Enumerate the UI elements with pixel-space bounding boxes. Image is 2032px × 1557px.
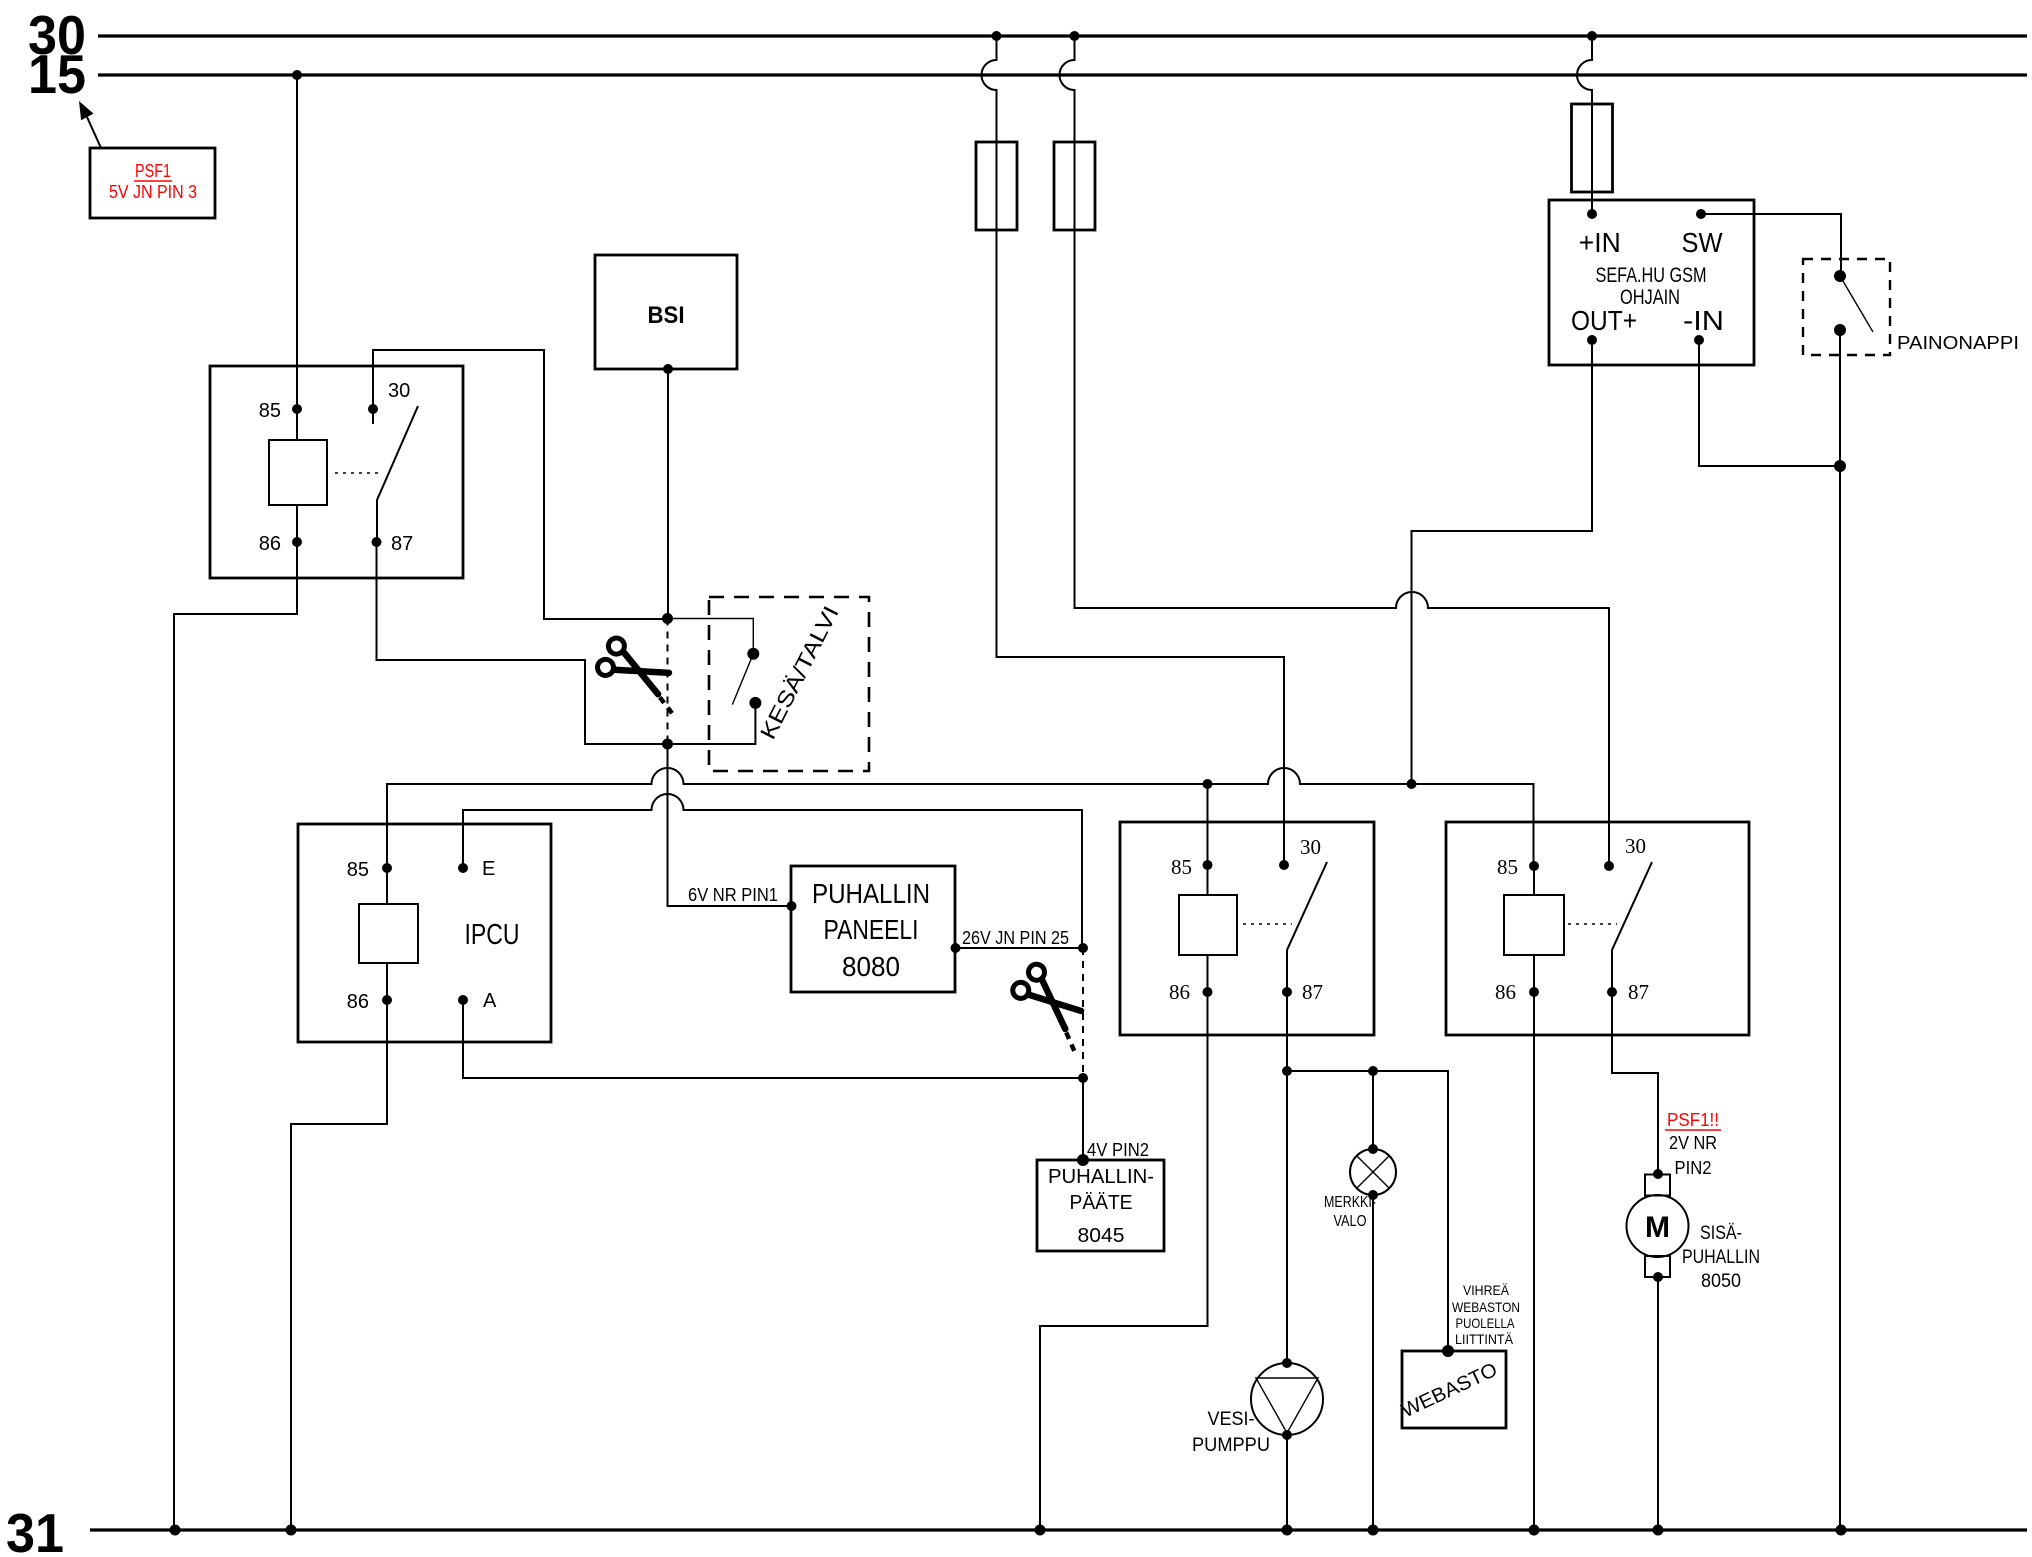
relay K1 pin 30 [368,380,410,424]
wire: cut dashed segment 26V node to 4V node [1082,948,1084,1078]
svg-text:IPCU: IPCU [465,919,520,951]
label VIHREA WEBASTON PUOLELLA LIITTINTA [1452,1282,1520,1347]
GSM pin -IN [1694,335,1704,345]
wire: relay K3 86 to bus 31 [1533,992,1535,1530]
wire: branch to relay K2 85 [1207,784,1209,865]
relay K3 coil [1504,866,1617,992]
fuse F1 [976,31,1284,865]
fuse F3 [1572,31,1613,214]
BSI box [595,255,737,369]
svg-text:2V NR: 2V NR [1669,1133,1717,1153]
relay K1 coil [269,409,380,542]
pushbutton PAINONAPPI dashed box [1803,259,2019,355]
svg-text:WEBASTON: WEBASTON [1452,1299,1520,1315]
wire: 26V JN PIN 25 [951,928,1089,953]
wire: -IN to pushbutton wire [1699,340,1840,466]
svg-text:15: 15 [28,43,86,105]
svg-text:87: 87 [1628,980,1649,1004]
wire: relay K3 87 to motor [1612,992,1658,1174]
svg-text:VIHREÄ: VIHREÄ [1463,1282,1510,1298]
svg-text:86: 86 [1495,980,1516,1004]
svg-text:85: 85 [1497,855,1518,879]
svg-text:85: 85 [259,400,281,422]
bus 30 [28,4,2027,66]
relay K1 pin 86 [259,533,302,555]
svg-text:86: 86 [259,533,281,555]
relay K1 pin 85 [259,400,302,422]
KESA/TALVI dashed box [709,597,869,771]
svg-text:31: 31 [6,1502,64,1557]
relay K2 coil [1179,865,1292,992]
svg-text:86: 86 [1169,980,1190,1004]
svg-text:SISÄ-: SISÄ- [1700,1223,1742,1244]
svg-text:85: 85 [1171,855,1192,879]
wire: pushbutton bottom to bus 31 [1839,330,1841,1530]
pushbutton arm [1840,276,1873,332]
svg-text:-IN: -IN [1683,305,1724,336]
scissors S2 [1007,961,1102,1052]
wire: BSI to node A [667,369,669,618]
wire: KESA switch bottom to node B [668,703,756,744]
bus 31 [6,1502,2027,1557]
motor M SISA-PUHALLIN 8050 [1627,1169,1761,1530]
svg-text:BSI: BSI [648,302,685,329]
svg-text:30: 30 [388,380,410,402]
bus 15 [28,43,2027,105]
relay K2 pin 30 [1279,835,1321,870]
PUHALLIN PANEELI 8080 box [791,866,955,992]
IPCU pin 85 [347,859,392,881]
pump VESI-PUMPPU [1192,1071,1323,1530]
relay K2 switch arm [1287,862,1327,992]
svg-text:PSF1: PSF1 [135,161,171,181]
IPCU pin A [458,990,497,1012]
wire: relay K1 pin30 to KESA junction [373,350,668,619]
wire: SW to pushbutton [1701,214,1841,276]
wire: E-line (y810) IPCU E to 26V node [463,794,1082,948]
wire: 4V node down to PUHALLIN-PAATE [1082,1078,1084,1160]
svg-text:PUMPPU: PUMPPU [1192,1435,1270,1456]
svg-text:LIITTINTÄ: LIITTINTÄ [1455,1331,1514,1347]
IPCU box [298,824,551,1042]
svg-text:30: 30 [1625,834,1646,858]
svg-text:PUHALLIN-: PUHALLIN- [1048,1166,1154,1188]
GSM pin SW [1696,209,1706,219]
svg-text:8080: 8080 [842,951,900,982]
relay K3 pin 86 [1495,980,1539,1004]
svg-text:E: E [482,858,495,880]
relay K2 pin 87 [1282,980,1323,1004]
svg-text:+IN: +IN [1579,227,1621,258]
wire: node A to KESA switch top [668,619,754,654]
fuse F2 [1054,31,1609,866]
BSI pin [663,364,673,374]
pushbutton bottom terminal [1834,324,1846,336]
svg-text:6V NR PIN1: 6V NR PIN1 [688,885,778,905]
wire: node B down to PUHALLIN PANEELI pin (6V NR PIN1) [668,744,792,906]
svg-text:85: 85 [347,859,369,881]
svg-text:PAINONAPPI: PAINONAPPI [1897,333,2019,353]
bus 31 junction dots [170,1525,1847,1536]
relay K2 pin 86 [1169,980,1213,1004]
wire: K2-87 node to WEBASTO [1287,1071,1448,1351]
label PSF1!! 2V NR PIN2 [1665,1110,1721,1178]
svg-text:SW: SW [1682,227,1724,258]
GSM pin +IN [1587,209,1597,219]
svg-text:30: 30 [1300,835,1321,859]
svg-text:87: 87 [1302,980,1323,1004]
svg-text:PUHALLIN: PUHALLIN [812,878,930,909]
svg-text:M: M [1645,1211,1670,1244]
svg-text:PIN2: PIN2 [1675,1158,1712,1178]
GSM pin OUT+ [1587,335,1597,345]
relay K3 switch arm [1612,862,1652,992]
node B junction [662,739,673,750]
wire: cut dashed segment node A to node B [667,619,669,745]
relay K1 switch arm [377,406,418,542]
svg-text:VALO: VALO [1334,1213,1367,1230]
node: OUT+ junction on 85-line [1407,779,1417,789]
WEBASTO box [1398,1345,1506,1428]
svg-text:26V JN PIN 25: 26V JN PIN 25 [962,928,1069,948]
svg-text:PANEELI: PANEELI [824,914,919,945]
KESA switch bottom terminal [749,697,761,709]
lamp MERKKIVALO [1324,1071,1396,1530]
wire: OUT+ down to 85-line [1412,340,1593,784]
relay K3 pin 30 [1604,834,1646,871]
IPCU coil [359,868,418,1000]
GSM controller box [1549,200,1754,365]
PUHALLIN-PAATE 8045 box [1037,1160,1164,1251]
wire: relay K2 86 to bus 31 [1040,992,1208,1530]
svg-text:86: 86 [347,991,369,1013]
wire: 85-line (y784) IPCU85 to relay K3 85 with hops [387,768,1534,868]
svg-text:A: A [483,990,497,1012]
KESA switch arm [732,654,753,705]
wire: IPCU 86 to bus 31 [291,1000,387,1530]
svg-text:VESI-: VESI- [1208,1409,1255,1430]
svg-text:4V PIN2: 4V PIN2 [1087,1140,1149,1160]
relay K3 box [1446,822,1749,1035]
relay K2 box [1120,822,1374,1035]
KESA switch top terminal [747,648,759,660]
scissors S1 [593,635,692,714]
svg-text:PÄÄTE: PÄÄTE [1070,1192,1133,1214]
relay K3 pin 85 [1497,855,1539,879]
node: 4V junction [1078,1073,1088,1083]
PSF1 callout box [90,148,215,218]
svg-text:SEFA.HU GSM: SEFA.HU GSM [1596,264,1707,287]
wire: bus15 to relay K1 pin85 [292,70,302,409]
pushbutton top terminal [1834,270,1846,282]
svg-text:8050: 8050 [1701,1271,1741,1292]
svg-text:MERKKI-: MERKKI- [1324,1194,1376,1211]
IPCU pin E [458,858,495,880]
svg-text:PUHALLIN: PUHALLIN [1682,1247,1760,1268]
wire: relay K1 pin87 to node A [377,542,668,744]
relay K1 box [210,366,463,578]
svg-text:OUT+: OUT+ [1571,305,1637,336]
wire: relay K1 pin86 to bus 31 [174,542,297,1530]
relay K3 pin 87 [1607,980,1649,1004]
wire: IPCU A to 4V node [463,1000,1083,1078]
relay K1 pin 87 [372,533,414,555]
svg-text:PSF1!!: PSF1!! [1667,1110,1719,1130]
svg-text:5V JN PIN 3: 5V JN PIN 3 [109,182,197,202]
relay K2 pin 85 [1171,855,1213,879]
wire: relay K2 87 down [1286,992,1288,1071]
svg-text:87: 87 [391,533,413,555]
svg-text:PUOLELLA: PUOLELLA [1456,1315,1516,1331]
IPCU pin 86 [347,991,392,1013]
node A junction [662,613,673,624]
PSF1 callout arrow [79,101,101,148]
svg-text:8045: 8045 [1078,1225,1125,1247]
